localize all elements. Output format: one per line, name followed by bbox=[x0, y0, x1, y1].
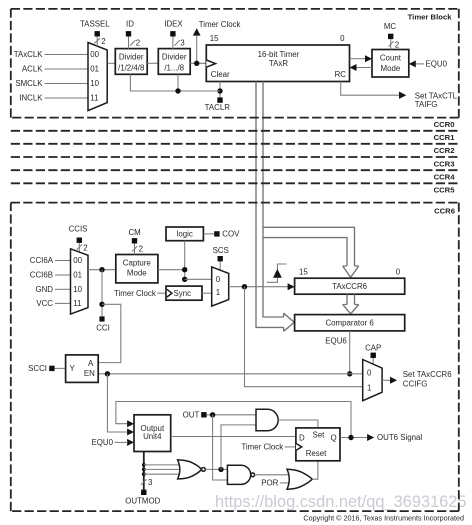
node Q junction bbox=[348, 435, 353, 440]
wire VCC to mux bbox=[55, 302, 71, 304]
svg-text:/1.../8: /1.../8 bbox=[164, 64, 184, 73]
wire outmod slash 3 bbox=[141, 478, 153, 487]
svg-text:RC: RC bbox=[335, 70, 347, 79]
register 16-bit Timer TAxR U-TAxR bbox=[206, 45, 349, 82]
bus TAxR data right edge bbox=[263, 82, 284, 318]
svg-text:11: 11 bbox=[73, 299, 81, 308]
svg-text:1: 1 bbox=[216, 288, 220, 297]
svg-text:Timer Block: Timer Block bbox=[408, 13, 453, 22]
node outmod tap2 bbox=[142, 468, 146, 472]
bus branch to TAxCCR6 upper edge bbox=[263, 227, 355, 266]
wire RC to TAIFG bbox=[341, 82, 400, 96]
svg-text:Sync: Sync bbox=[174, 289, 192, 298]
CCR3 row line bbox=[11, 169, 459, 171]
COV tap square bbox=[214, 231, 219, 236]
wire divider IDEX to timer TAxR bbox=[190, 62, 206, 64]
svg-text:CCR3: CCR3 bbox=[434, 159, 455, 168]
bus branch to TAxCCR6 lower edge bbox=[263, 238, 347, 266]
CCR4 row line bbox=[11, 182, 459, 184]
svg-text:0: 0 bbox=[367, 369, 372, 378]
svg-text:TAIFG: TAIFG bbox=[415, 100, 438, 109]
svg-text:Divider: Divider bbox=[162, 53, 187, 62]
wire nor output bbox=[205, 468, 227, 470]
svg-text:CCI: CCI bbox=[96, 324, 110, 333]
wire outmod to nor input2 bbox=[144, 468, 181, 470]
svg-text:00: 00 bbox=[90, 50, 99, 59]
svg-text:2: 2 bbox=[139, 245, 143, 254]
svg-text:VCC: VCC bbox=[36, 299, 53, 308]
svg-text:TAxR: TAxR bbox=[269, 59, 288, 68]
svg-text:1: 1 bbox=[367, 383, 371, 392]
svg-text:Y: Y bbox=[70, 364, 76, 373]
comparator 6 box bbox=[295, 315, 405, 331]
svg-text:CM: CM bbox=[128, 228, 140, 237]
svg-text:Comparator 6: Comparator 6 bbox=[325, 319, 374, 328]
label Set TAxCTL TAIFG bbox=[415, 91, 458, 109]
Timer Clock up arrow bbox=[193, 28, 201, 35]
wire EQU6 to latch EN bbox=[98, 373, 350, 375]
and gate U-AND bbox=[256, 409, 278, 430]
wire SMCLK to mux bbox=[45, 83, 88, 85]
wire timer clock to ff bbox=[285, 446, 296, 448]
wire EQU0 to output unit bbox=[115, 441, 128, 443]
svg-text:COV: COV bbox=[222, 230, 240, 239]
label TACLR bbox=[205, 103, 231, 112]
label TASSEL bbox=[80, 20, 110, 29]
label VCC bbox=[36, 299, 53, 308]
node sync out junction bbox=[242, 284, 247, 289]
svg-text:POR: POR bbox=[261, 479, 278, 488]
wire clear bypass to dividers bbox=[130, 74, 220, 91]
svg-text:logic: logic bbox=[177, 230, 193, 239]
label TAxCLK bbox=[14, 50, 44, 59]
node nor out junction bbox=[218, 467, 223, 472]
watermark bbox=[215, 493, 467, 511]
svg-text:EQU0: EQU0 bbox=[92, 438, 114, 447]
arrow into output unit input1 bbox=[127, 420, 134, 427]
svg-text:Timer Clock: Timer Clock bbox=[241, 443, 283, 452]
output unit4 box U-OU4 bbox=[134, 415, 171, 452]
capture mode box U-CAP bbox=[116, 255, 158, 283]
svg-text:SCS: SCS bbox=[213, 246, 229, 255]
wire ACLK to mux bbox=[45, 68, 88, 70]
svg-text:16-bit Timer: 16-bit Timer bbox=[258, 50, 300, 59]
svg-text:Timer Clock: Timer Clock bbox=[114, 289, 156, 298]
svg-text:MC: MC bbox=[384, 22, 397, 31]
svg-text:TAxCCR6: TAxCCR6 bbox=[332, 282, 368, 291]
label CCR0 bbox=[434, 120, 455, 129]
OUT tap square bbox=[201, 412, 206, 417]
divider IDEX box bbox=[158, 49, 190, 75]
TACLR tap square bbox=[217, 97, 222, 102]
svg-text:SMCLK: SMCLK bbox=[15, 79, 43, 88]
label Timer Block bbox=[408, 13, 453, 22]
wire capture mode output bbox=[158, 269, 185, 271]
label CCI bbox=[96, 324, 110, 333]
capture edge symbol bbox=[267, 264, 286, 282]
label COV bbox=[222, 230, 240, 239]
node capture to SCS mux junction bbox=[182, 277, 187, 282]
arrow into output unit input3 bbox=[127, 439, 134, 446]
label 15 ccr msb bbox=[299, 267, 308, 276]
MC tap square bbox=[388, 34, 393, 39]
CCR1 row line bbox=[11, 143, 459, 145]
svg-text:https://blog.csdn.net/qq_36931: https://blog.csdn.net/qq_36931625 bbox=[215, 493, 467, 511]
arrow into timer RC bbox=[350, 64, 357, 71]
svg-text:Reset: Reset bbox=[306, 449, 327, 458]
wire POR to or gate bbox=[280, 482, 291, 484]
TAxR clock input triangle bbox=[206, 60, 215, 67]
node divider IDEX clear junction bbox=[175, 88, 180, 93]
bus arrow TAxCCR6 to comparator bbox=[343, 294, 359, 314]
CCI tap square bbox=[99, 316, 104, 321]
svg-text:2: 2 bbox=[136, 39, 140, 48]
or gate U-OR bbox=[287, 469, 312, 489]
label CM bbox=[128, 228, 140, 237]
wire capture node to SCS mux input0 bbox=[185, 278, 212, 280]
svg-text:CCR0: CCR0 bbox=[434, 120, 455, 129]
mux SCS sync-select bbox=[212, 267, 229, 306]
svg-text:Copyright © 2016, Texas Instru: Copyright © 2016, Texas Instruments Inco… bbox=[303, 514, 464, 523]
wire CCIS to mux with slash 2 bbox=[77, 243, 88, 252]
svg-text:ACLK: ACLK bbox=[22, 65, 43, 74]
label EQU0 bottom bbox=[92, 438, 114, 447]
label IDEX bbox=[164, 20, 183, 29]
wire OUT to and input1 bbox=[207, 414, 256, 416]
svg-text:Timer Clock: Timer Clock bbox=[199, 20, 241, 29]
CCR2 row line bbox=[11, 156, 459, 158]
copyright line bbox=[303, 514, 464, 523]
wire SCCI to latch Y bbox=[55, 367, 66, 369]
svg-text:01: 01 bbox=[90, 65, 99, 74]
d flip-flop U-FF bbox=[296, 428, 340, 461]
node capture logic junction bbox=[182, 267, 187, 272]
count mode box U-CM bbox=[372, 50, 409, 78]
svg-text:CCR1: CCR1 bbox=[434, 133, 456, 142]
wire TACLR clear vertical bbox=[219, 82, 221, 98]
wire CCI6B to mux bbox=[55, 274, 71, 276]
arrow into output unit input2 bbox=[127, 429, 134, 436]
node timer clock junction bbox=[194, 61, 199, 66]
wire and out to ff set bbox=[278, 420, 318, 428]
svg-text:EQU0: EQU0 bbox=[426, 60, 448, 69]
divider ID box bbox=[115, 49, 147, 75]
svg-text:2: 2 bbox=[395, 41, 399, 50]
bus arrowhead into comparator bbox=[284, 313, 295, 331]
wire CCI6A to mux bbox=[55, 260, 71, 262]
label 15 msb bbox=[210, 34, 219, 43]
wire IDEX to divider with slash 3 bbox=[173, 37, 185, 49]
svg-text:TASSEL: TASSEL bbox=[80, 20, 110, 29]
label SCS bbox=[213, 246, 229, 255]
node outmod tap3 bbox=[142, 472, 146, 476]
register TAxCCR6 bbox=[295, 278, 405, 294]
label OUT bbox=[183, 411, 200, 420]
wire EQU6 to CAP mux input0 bbox=[350, 373, 363, 375]
label OUTMOD bbox=[125, 497, 160, 506]
label CAP bbox=[365, 343, 381, 352]
CAP tap square bbox=[371, 353, 376, 358]
wire logic to COV bbox=[203, 233, 214, 235]
svg-text:Mode: Mode bbox=[381, 64, 401, 73]
node TACLR junction bbox=[217, 88, 222, 93]
wire logic down to capture path bbox=[184, 241, 186, 280]
svg-text:D: D bbox=[299, 433, 305, 442]
svg-text:OUT6 Signal: OUT6 Signal bbox=[377, 433, 422, 442]
svg-text:0: 0 bbox=[396, 267, 401, 276]
wire CAP to mux bbox=[372, 358, 374, 365]
label CCI6B bbox=[30, 271, 53, 280]
wire or out to ff reset bbox=[312, 461, 318, 479]
svg-text:01: 01 bbox=[73, 271, 82, 280]
svg-text:TAxCLK: TAxCLK bbox=[14, 50, 44, 59]
wire CCI vertical bbox=[101, 270, 103, 317]
svg-text:CCR5: CCR5 bbox=[434, 186, 456, 195]
label EQU6 bbox=[325, 337, 347, 346]
bus arrowhead into TAxCCR6 bbox=[343, 266, 359, 277]
svg-text:Capture: Capture bbox=[123, 258, 152, 267]
wire Q output bbox=[340, 437, 367, 439]
label Set TAxCCR6 CCIFG bbox=[403, 370, 452, 389]
svg-text:SCCI: SCCI bbox=[28, 364, 47, 373]
label Timer Clock middle bbox=[114, 289, 156, 298]
svg-text:2: 2 bbox=[101, 37, 105, 46]
wire divider ID to divider IDEX bbox=[147, 62, 158, 64]
CM tap square bbox=[132, 238, 137, 243]
SCCI tap square bbox=[49, 366, 54, 371]
svg-text:GND: GND bbox=[35, 285, 53, 294]
wire timer to count mode bbox=[350, 58, 366, 60]
svg-text:10: 10 bbox=[90, 79, 99, 88]
svg-text:CAP: CAP bbox=[365, 343, 381, 352]
svg-text:Mode: Mode bbox=[127, 269, 147, 278]
svg-text:Clear: Clear bbox=[211, 70, 230, 79]
wire SCS mux to TAxCCR6 bbox=[229, 286, 289, 288]
wire CCIS mux to capture mode bbox=[88, 269, 116, 271]
label CCR2 bbox=[434, 146, 455, 155]
svg-text:CCR2: CCR2 bbox=[434, 146, 455, 155]
label SMCLK bbox=[15, 79, 43, 88]
nand gate U-NAND bbox=[227, 465, 254, 484]
wire sync node to CAP mux input1 bbox=[245, 287, 363, 387]
svg-text:3: 3 bbox=[148, 478, 153, 487]
SCS tap square bbox=[218, 256, 223, 261]
IDEX tap square bbox=[170, 31, 175, 36]
arrow into TAxCCR6 bbox=[288, 283, 295, 290]
wire TASSEL to mux with slash 2 bbox=[94, 37, 105, 47]
TASSEL tap square bbox=[95, 31, 100, 36]
label 0 ccr lsb bbox=[396, 267, 401, 276]
svg-text:/1/2/4/8: /1/2/4/8 bbox=[118, 64, 145, 73]
node OUT junction bbox=[210, 412, 215, 417]
svg-text:CCR4: CCR4 bbox=[434, 173, 456, 182]
node CCI to A branch bbox=[99, 302, 104, 307]
wire nor out to and input2 bbox=[221, 425, 256, 470]
wire SCS to mux bbox=[219, 261, 221, 270]
svg-text:15: 15 bbox=[210, 34, 219, 43]
mux TASSEL clock-select bbox=[88, 43, 107, 111]
arrow OUT6 signal bbox=[367, 434, 374, 441]
svg-text:Count: Count bbox=[380, 54, 402, 63]
CCIS tap square bbox=[77, 238, 82, 243]
node EN junction bbox=[105, 371, 110, 376]
svg-text:00: 00 bbox=[73, 256, 82, 265]
wire outmod to nor input1 bbox=[144, 464, 180, 466]
latch Y A EN box U-SCCI bbox=[66, 355, 99, 383]
wire OUTMOD bus vertical bbox=[143, 452, 145, 490]
label POR bbox=[261, 479, 278, 488]
wire ID to divider with slash 2 bbox=[129, 37, 141, 49]
svg-text:Set: Set bbox=[312, 431, 325, 440]
svg-text:ID: ID bbox=[126, 20, 134, 29]
node CCI junction bbox=[99, 267, 104, 272]
arrow into count mode bbox=[365, 55, 372, 62]
node outmod tap1 bbox=[142, 463, 146, 467]
sync box U-SYNC bbox=[166, 286, 202, 300]
node EQU6 junction bbox=[347, 371, 352, 376]
wire EN node down to output unit bbox=[107, 374, 127, 432]
mux CAP capture-compare select bbox=[363, 360, 382, 401]
svg-text:10: 10 bbox=[73, 285, 82, 294]
arrow Set TAxCCR6 CCIFG bbox=[390, 377, 397, 384]
wire nand out to or gate bbox=[255, 474, 290, 476]
CCR6 dashed frame bbox=[11, 203, 459, 512]
arrow to Set TAxCTL TAIFG bbox=[399, 92, 406, 99]
wire Timer Clock tap bbox=[196, 35, 198, 63]
wire INCLK to mux bbox=[45, 97, 88, 99]
CCR0 row line bbox=[11, 130, 459, 132]
svg-text:OUT: OUT bbox=[183, 411, 200, 420]
wire CM to capture mode with slash 2 bbox=[132, 244, 143, 255]
wire feedback Q to output unit bbox=[116, 402, 351, 438]
label Timer Clock bottom bbox=[241, 443, 283, 452]
nor gate U-NOR bbox=[178, 460, 206, 479]
svg-text:IDEX: IDEX bbox=[164, 20, 183, 29]
label EQU0 top bbox=[426, 60, 448, 69]
label OUT6 Signal bbox=[377, 433, 422, 442]
label ID bbox=[126, 20, 134, 29]
svg-text:INCLK: INCLK bbox=[19, 94, 43, 103]
svg-text:EQU6: EQU6 bbox=[325, 337, 347, 346]
wire timer clock to sync bbox=[157, 292, 166, 294]
label ACLK bbox=[22, 65, 43, 74]
wire EQU6 from comparator bbox=[349, 331, 351, 374]
arrow EQU0 into count mode bbox=[409, 60, 416, 67]
label CCR5 bbox=[434, 186, 456, 195]
svg-text:CCR6: CCR6 bbox=[434, 206, 455, 215]
svg-text:TACLR: TACLR bbox=[205, 103, 231, 112]
wire mux to divider ID bbox=[108, 62, 116, 64]
svg-text:A: A bbox=[88, 359, 94, 368]
wire divider IDEX clear stub bbox=[177, 74, 179, 91]
wire MC to count mode with slash 2 bbox=[389, 39, 400, 50]
label CCR3 bbox=[434, 159, 455, 168]
svg-text:CCIFG: CCIFG bbox=[403, 380, 428, 389]
label 0 lsb bbox=[340, 34, 345, 43]
Timer Block dashed frame bbox=[11, 9, 459, 118]
ff clock triangle bbox=[296, 443, 302, 450]
label CCR6 bbox=[434, 206, 455, 215]
svg-text:CCIS: CCIS bbox=[69, 225, 88, 234]
svg-text:11: 11 bbox=[90, 94, 98, 103]
wire outmod to nor input3 bbox=[144, 473, 180, 475]
wire output unit to ff D bbox=[171, 436, 296, 438]
wire EQU0 bbox=[416, 63, 425, 65]
label SCCI bbox=[28, 364, 47, 373]
label GND bbox=[35, 285, 53, 294]
wire count mode to timer bbox=[356, 67, 372, 69]
svg-text:0: 0 bbox=[340, 34, 345, 43]
svg-text:Divider: Divider bbox=[119, 53, 144, 62]
svg-text:EN: EN bbox=[84, 369, 95, 378]
wire CAP mux output bbox=[382, 379, 390, 381]
svg-text:CCI6A: CCI6A bbox=[30, 256, 54, 265]
svg-text:Set TAxCCR6: Set TAxCCR6 bbox=[403, 370, 452, 379]
label Timer Clock top bbox=[199, 20, 241, 29]
svg-text:CCI6B: CCI6B bbox=[30, 271, 53, 280]
wire OUT down to nand input2 bbox=[213, 415, 228, 480]
svg-text:OUTMOD: OUTMOD bbox=[125, 497, 160, 506]
wire sync to SCS mux input1 bbox=[202, 292, 212, 294]
label CCI6A bbox=[30, 256, 54, 265]
svg-text:Q: Q bbox=[330, 433, 336, 442]
svg-text:Unit4: Unit4 bbox=[143, 432, 162, 441]
label CCR4 bbox=[434, 173, 456, 182]
wire TAxCLK to mux bbox=[45, 54, 88, 56]
OUTMOD tap square bbox=[141, 490, 146, 495]
wire GND to mux bbox=[55, 288, 71, 290]
svg-text:2: 2 bbox=[83, 243, 87, 252]
label INCLK bbox=[19, 94, 43, 103]
label CCIS bbox=[69, 225, 88, 234]
label CCR1 bbox=[434, 133, 456, 142]
logic box U-LOGIC bbox=[166, 227, 203, 241]
mux CCIS input-select bbox=[71, 249, 89, 314]
svg-text:15: 15 bbox=[299, 267, 308, 276]
ID tap square bbox=[126, 31, 131, 36]
wire CCI to latch A input bbox=[98, 304, 121, 362]
svg-text:3: 3 bbox=[180, 39, 185, 48]
bus TAxR data left edge bbox=[256, 82, 284, 328]
label MC bbox=[384, 22, 397, 31]
svg-text:0: 0 bbox=[216, 275, 221, 284]
